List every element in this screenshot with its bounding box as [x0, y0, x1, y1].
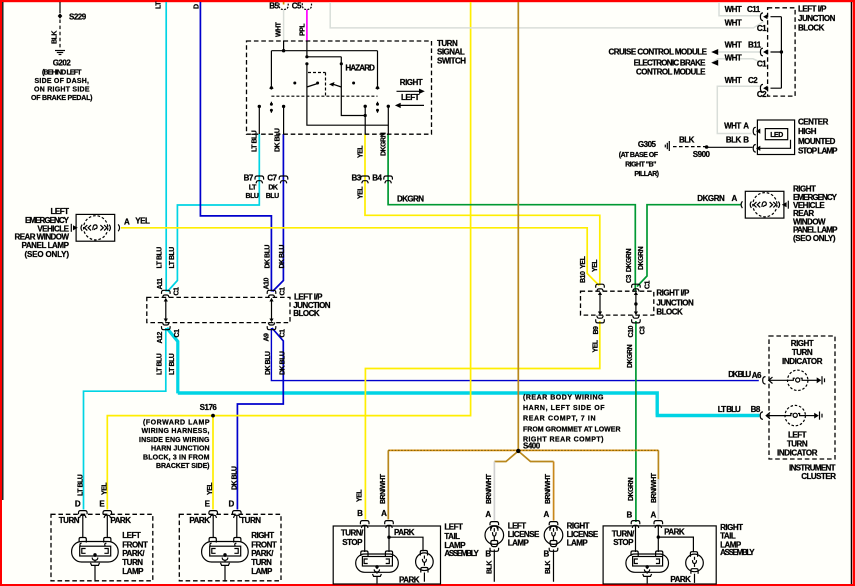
svg-text:(SEO ONLY): (SEO ONLY) [793, 234, 836, 243]
svg-text:PARK: PARK [110, 516, 131, 525]
svg-text:PARK/: PARK/ [251, 549, 274, 558]
svg-text:DK BLU: DK BLU [275, 128, 282, 152]
svg-text:YEL: YEL [592, 259, 599, 272]
svg-text:A: A [651, 510, 657, 519]
svg-text:STOP LAMP: STOP LAMP [798, 147, 838, 156]
svg-text:RIGHT I/P: RIGHT I/P [656, 289, 690, 298]
svg-text:PARK: PARK [670, 575, 691, 584]
svg-text:C1: C1 [280, 329, 287, 338]
svg-text:B8: B8 [751, 405, 761, 414]
svg-text:LEFT: LEFT [122, 531, 141, 540]
svg-text:CONTROL MODULE: CONTROL MODULE [636, 67, 706, 76]
svg-text:ASSEMBLY: ASSEMBLY [720, 548, 755, 557]
svg-text:BRN/WHT: BRN/WHT [545, 473, 552, 504]
svg-text:DK BLU: DK BLU [265, 351, 272, 375]
svg-text:RIGHT: RIGHT [251, 531, 274, 540]
svg-text:INSIDE ENG WIRING: INSIDE ENG WIRING [139, 437, 210, 444]
svg-text:A9: A9 [263, 333, 270, 342]
svg-text:S229: S229 [69, 13, 87, 22]
svg-text:LT: LT [249, 184, 257, 191]
svg-text:ASSEMBLY: ASSEMBLY [444, 549, 479, 558]
svg-text:B: B [743, 135, 749, 144]
svg-text:ON RIGHT SIDE: ON RIGHT SIDE [34, 87, 90, 94]
svg-text:ELECTRONIC BRAKE: ELECTRONIC BRAKE [634, 58, 707, 67]
svg-text:PPL: PPL [300, 23, 307, 36]
svg-text:LAMP: LAMP [567, 539, 589, 548]
svg-text:YEL: YEL [592, 339, 599, 352]
svg-text:DK BLU: DK BLU [265, 245, 272, 269]
svg-text:BLU: BLU [246, 193, 259, 200]
svg-text:C1: C1 [644, 280, 651, 289]
svg-text:G202: G202 [53, 59, 72, 68]
svg-text:LICENSE: LICENSE [567, 530, 599, 539]
svg-text:FRONT: FRONT [122, 540, 148, 549]
svg-text:HIGH: HIGH [798, 127, 817, 136]
svg-text:C5: C5 [292, 2, 302, 11]
svg-text:RIGHT "B": RIGHT "B" [625, 162, 656, 169]
svg-text:FROM GROMMET AT LOWER: FROM GROMMET AT LOWER [523, 426, 620, 433]
svg-text:HAZARD: HAZARD [345, 63, 375, 72]
svg-text:C1: C1 [757, 24, 767, 33]
svg-text:BRN/WHT: BRN/WHT [380, 473, 387, 504]
svg-text:TURN: TURN [792, 348, 813, 357]
svg-text:D: D [194, 4, 201, 9]
svg-text:TURN: TURN [251, 558, 272, 567]
svg-text:LT BLU: LT BLU [157, 247, 164, 269]
svg-text:LEFT: LEFT [51, 207, 70, 216]
svg-text:G305: G305 [638, 140, 657, 149]
svg-text:BRN/WHT: BRN/WHT [486, 473, 493, 504]
svg-text:INDICATOR: INDICATOR [782, 357, 823, 366]
svg-text:D: D [75, 500, 81, 509]
svg-text:LT BLU: LT BLU [169, 353, 176, 375]
svg-text:A: A [485, 510, 491, 519]
svg-text:TAIL: TAIL [720, 532, 736, 541]
svg-text:C3 DKGRN: C3 DKGRN [626, 249, 633, 283]
svg-text:LEFT I/P: LEFT I/P [294, 292, 323, 301]
svg-text:REAR COMPT, 7 IN: REAR COMPT, 7 IN [523, 416, 595, 423]
svg-text:B11: B11 [748, 40, 762, 49]
svg-text:LEFT I/P: LEFT I/P [798, 4, 827, 13]
svg-text:PILLAR): PILLAR) [634, 171, 658, 178]
svg-text:DK BLU: DK BLU [279, 351, 286, 375]
svg-text:BLOCK: BLOCK [798, 24, 825, 33]
svg-text:DK BLU: DK BLU [728, 370, 751, 379]
svg-text:TURN/: TURN/ [612, 529, 635, 538]
svg-text:JUNCTION: JUNCTION [798, 14, 836, 23]
svg-text:DKGRN: DKGRN [627, 344, 634, 368]
svg-text:A: A [381, 509, 387, 518]
svg-text:LAMP: LAMP [122, 567, 144, 576]
svg-text:C1: C1 [174, 329, 181, 338]
svg-text:LAMP: LAMP [251, 567, 273, 576]
svg-text:C2: C2 [757, 90, 767, 99]
svg-text:C11: C11 [747, 5, 761, 14]
svg-text:JUNCTION: JUNCTION [656, 298, 694, 307]
svg-text:PARK: PARK [399, 575, 420, 584]
svg-text:WHT: WHT [724, 122, 741, 131]
svg-text:SIDE OF DASH,: SIDE OF DASH, [35, 78, 90, 85]
svg-text:B4: B4 [372, 173, 382, 182]
svg-text:LT BLU: LT BLU [252, 130, 259, 152]
svg-text:LEFT: LEFT [444, 523, 463, 532]
svg-text:BLK: BLK [52, 31, 59, 44]
svg-text:DKGRN: DKGRN [638, 246, 645, 270]
svg-text:TAIL: TAIL [444, 532, 460, 541]
svg-text:BLK: BLK [487, 561, 494, 574]
svg-text:BLK: BLK [545, 561, 552, 574]
svg-text:HARN, LEFT SIDE OF: HARN, LEFT SIDE OF [523, 405, 605, 412]
svg-text:C2: C2 [748, 76, 758, 85]
svg-text:C1: C1 [757, 59, 767, 68]
svg-text:STOP: STOP [342, 538, 363, 547]
svg-text:TURN: TURN [240, 516, 261, 525]
svg-text:STOP: STOP [613, 538, 634, 547]
svg-text:WHT: WHT [725, 54, 742, 63]
svg-text:WHT: WHT [725, 5, 742, 14]
svg-text:YEL: YEL [358, 186, 365, 199]
svg-text:LEFT: LEFT [788, 430, 807, 439]
svg-text:B3: B3 [351, 173, 361, 182]
svg-text:LT: LT [156, 1, 163, 9]
svg-text:C1: C1 [174, 287, 181, 296]
svg-text:A12: A12 [157, 332, 164, 344]
svg-text:DKGRN: DKGRN [628, 477, 635, 501]
svg-text:B10 YEL: B10 YEL [580, 255, 587, 283]
svg-text:INDICATOR: INDICATOR [777, 448, 818, 457]
svg-text:DKGRN: DKGRN [397, 195, 424, 204]
svg-text:SWITCH: SWITCH [437, 56, 466, 65]
svg-text:LAMP: LAMP [508, 539, 530, 548]
svg-text:B9: B9 [593, 326, 600, 335]
svg-text:YEL: YEL [207, 482, 214, 495]
svg-text:LT BLU: LT BLU [169, 247, 176, 269]
svg-text:YEL: YEL [358, 145, 365, 158]
svg-text:B: B [485, 550, 491, 559]
svg-text:TURN: TURN [437, 39, 458, 48]
svg-text:BRACKET SIDE): BRACKET SIDE) [156, 463, 209, 470]
svg-text:DKGRN: DKGRN [381, 132, 388, 156]
svg-text:B: B [543, 550, 549, 559]
svg-text:A10: A10 [263, 278, 270, 290]
svg-text:YEL: YEL [357, 489, 364, 502]
svg-text:LEFT: LEFT [401, 93, 420, 102]
svg-text:D: D [228, 500, 234, 509]
svg-text:C7: C7 [267, 173, 277, 182]
svg-text:(BEHIND LEFT: (BEHIND LEFT [42, 70, 82, 77]
svg-text:PARK/: PARK/ [122, 549, 145, 558]
svg-text:WHT: WHT [725, 40, 742, 49]
svg-text:A: A [543, 510, 549, 519]
svg-text:A6: A6 [752, 371, 762, 380]
svg-text:YEL: YEL [102, 482, 109, 495]
svg-text:FRONT: FRONT [251, 540, 277, 549]
svg-text:LED: LED [770, 132, 783, 139]
svg-text:S176: S176 [200, 403, 218, 412]
svg-text:PARK: PARK [189, 516, 210, 525]
svg-text:TURN: TURN [59, 516, 80, 525]
svg-text:BLU: BLU [266, 193, 279, 200]
svg-text:C3: C3 [639, 326, 646, 335]
svg-text:DK: DK [268, 184, 278, 191]
svg-text:HARN JUNCTION: HARN JUNCTION [151, 446, 209, 453]
svg-text:B: B [357, 509, 363, 518]
svg-text:TURN: TURN [787, 439, 808, 448]
svg-text:PARK: PARK [664, 527, 685, 536]
svg-text:LICENSE: LICENSE [508, 530, 540, 539]
svg-text:WHT: WHT [725, 19, 742, 28]
svg-text:C10: C10 [628, 326, 635, 338]
svg-text:PARK: PARK [394, 528, 415, 537]
svg-text:CLUSTER: CLUSTER [801, 472, 836, 481]
svg-text:RIGHT: RIGHT [400, 78, 423, 87]
svg-text:DK BLU: DK BLU [231, 466, 238, 490]
svg-text:WIRING HARNESS,: WIRING HARNESS, [142, 428, 210, 435]
svg-text:A: A [743, 122, 749, 131]
svg-text:C1: C1 [280, 287, 287, 296]
svg-text:CENTER: CENTER [798, 117, 829, 126]
svg-text:BLOCK: BLOCK [656, 307, 683, 316]
svg-text:RIGHT: RIGHT [791, 339, 814, 348]
svg-text:WHT: WHT [725, 76, 742, 85]
svg-text:EMERGENCY: EMERGENCY [25, 216, 70, 225]
svg-text:B7: B7 [244, 173, 254, 182]
svg-text:WHT: WHT [276, 21, 283, 37]
svg-text:BRN/WHT: BRN/WHT [651, 472, 658, 503]
svg-text:DKGRN: DKGRN [697, 194, 725, 203]
svg-text:BLOCK: BLOCK [293, 309, 320, 318]
svg-text:S900: S900 [693, 150, 711, 159]
svg-text:S400: S400 [523, 441, 541, 450]
svg-text:LT BLU: LT BLU [77, 474, 84, 496]
svg-text:TURN/: TURN/ [341, 529, 364, 538]
svg-text:BLK: BLK [726, 135, 742, 144]
svg-text:A: A [732, 194, 738, 203]
svg-text:B: B [627, 510, 633, 519]
svg-text:(SEO ONLY): (SEO ONLY) [25, 250, 70, 259]
svg-text:LT BLU: LT BLU [157, 353, 164, 375]
svg-text:YEL: YEL [135, 217, 150, 226]
svg-text:BLK: BLK [679, 135, 695, 144]
svg-text:(AT BASE OF: (AT BASE OF [619, 152, 659, 159]
svg-text:DK BLU: DK BLU [279, 245, 286, 269]
svg-text:BLOCK, 3 IN FROM: BLOCK, 3 IN FROM [143, 454, 210, 461]
svg-text:MOUNTED: MOUNTED [798, 137, 836, 146]
svg-text:SIGNAL: SIGNAL [437, 48, 465, 57]
svg-text:CRUISE CONTROL MODULE: CRUISE CONTROL MODULE [609, 47, 708, 56]
svg-text:(REAR BODY WIRING: (REAR BODY WIRING [523, 395, 604, 402]
svg-text:(FORWARD LAMP: (FORWARD LAMP [143, 420, 210, 427]
svg-text:B5: B5 [269, 2, 279, 11]
svg-text:OF BRAKE PEDAL): OF BRAKE PEDAL) [31, 95, 92, 102]
svg-text:LT BLU: LT BLU [718, 405, 741, 414]
svg-text:TURN: TURN [122, 558, 143, 567]
svg-text:A: A [124, 218, 130, 227]
svg-text:REAR WINDOW: REAR WINDOW [15, 232, 70, 241]
svg-text:PANEL LAMP: PANEL LAMP [22, 241, 70, 250]
svg-text:A11: A11 [157, 278, 164, 290]
